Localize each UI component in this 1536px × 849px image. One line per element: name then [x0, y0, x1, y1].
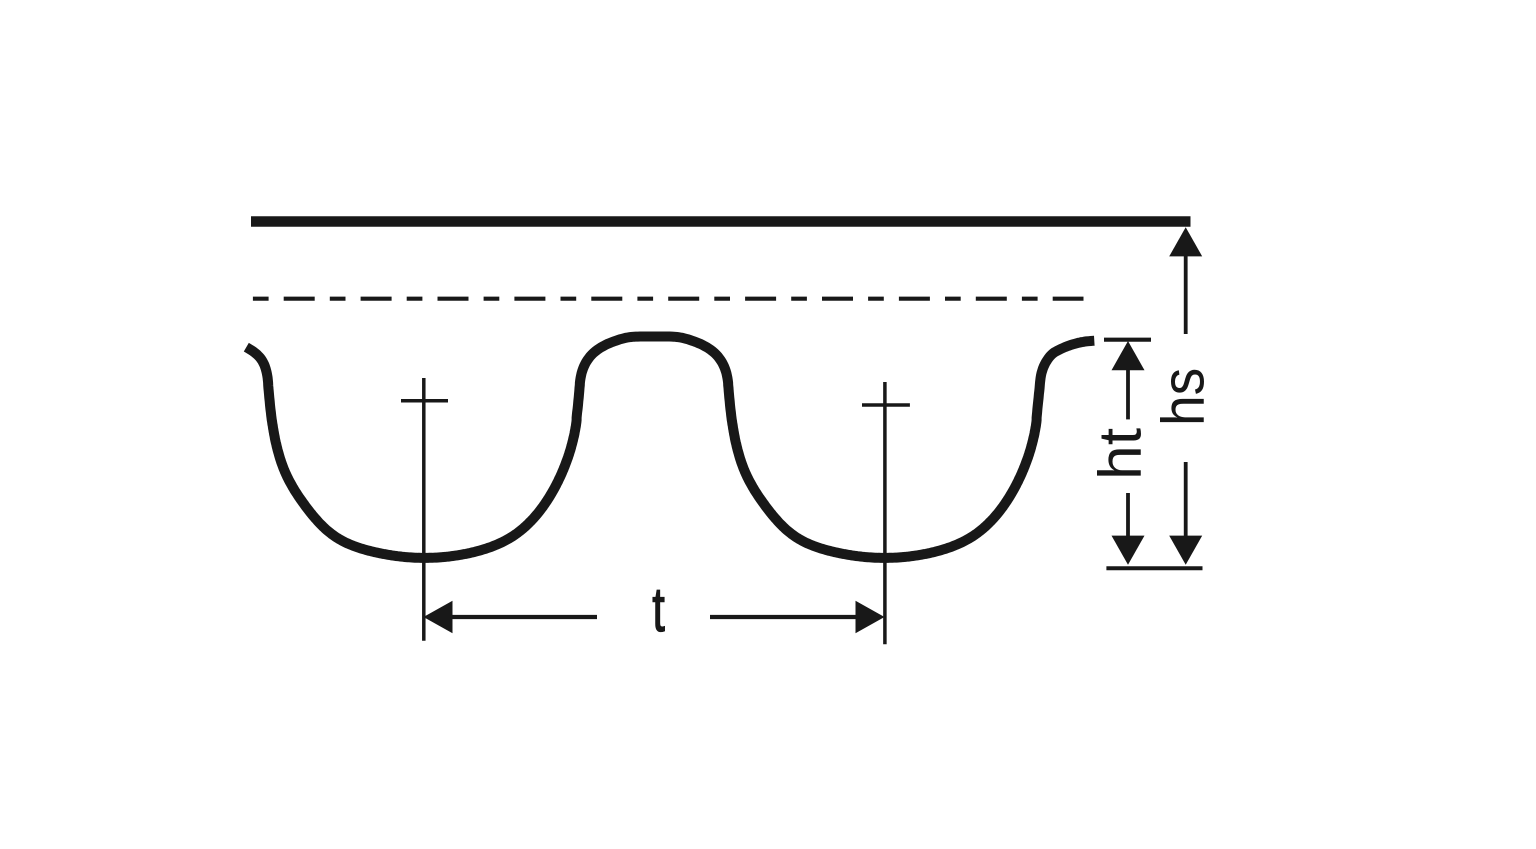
svg-text:hs: hs: [1150, 368, 1217, 426]
ht dimension top arrow: [1112, 341, 1145, 370]
ht dimension lower shaft: [1126, 493, 1130, 537]
centre mark tooth 2 (crossbar): [862, 403, 910, 407]
hs dimension lower shaft: [1184, 462, 1188, 537]
hs dimension bottom arrow: [1169, 536, 1202, 565]
pitch line (dash-dot): [253, 297, 1084, 301]
ht dimension upper shaft: [1126, 369, 1130, 419]
ht dimension top tick: [1104, 338, 1151, 342]
centre mark tooth 1 (vertical line): [422, 378, 426, 641]
centre mark tooth 1 (crossbar): [401, 399, 448, 403]
hs dimension upper shaft: [1184, 255, 1188, 334]
centre mark tooth 2 (vertical line): [883, 382, 887, 644]
t dimension left shaft: [451, 615, 597, 619]
t dimension right arrow: [856, 601, 885, 633]
hs dimension top arrow: [1169, 227, 1202, 256]
svg-text:t: t: [652, 574, 665, 645]
svg-text:ht: ht: [1087, 428, 1154, 480]
t dimension right shaft: [710, 615, 856, 619]
ht dimension bottom arrow: [1112, 536, 1145, 565]
belt back line: [251, 216, 1191, 227]
t dimension left arrow: [424, 601, 453, 633]
tooth tip reference tick: [1106, 566, 1202, 570]
belt tooth profile: [246, 337, 1094, 558]
